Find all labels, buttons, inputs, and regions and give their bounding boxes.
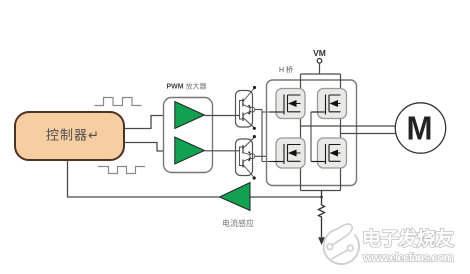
gate stub Q2 bbox=[311, 111, 326, 113]
left leg wires bbox=[300, 74, 302, 191]
amplifier box bbox=[164, 98, 213, 173]
wire feedback to controller bbox=[68, 160, 220, 197]
PWM waveform top bbox=[95, 98, 142, 106]
svg-text:H 桥: H 桥 bbox=[279, 65, 293, 74]
gate stub Q3 bbox=[262, 161, 284, 163]
VM terminal bbox=[317, 59, 322, 64]
wire bridge tap to sense resistor bbox=[321, 191, 323, 206]
driver U2 top terminal bbox=[253, 135, 256, 138]
resistor R sense bbox=[319, 205, 325, 218]
wire controller to amp2 bbox=[124, 143, 175, 152]
controller box 控制器 bbox=[15, 112, 124, 160]
amplifier A1 triangle bbox=[175, 102, 205, 129]
svg-text:控制器↵: 控制器↵ bbox=[46, 128, 100, 143]
H-bridge box bbox=[267, 80, 357, 186]
wire controller to amp1 bbox=[124, 116, 175, 129]
svg-text:VM: VM bbox=[313, 48, 326, 58]
motor M bbox=[395, 103, 445, 153]
wire amp2 to driver2 bbox=[205, 150, 240, 152]
wire VM to rail bbox=[319, 63, 321, 74]
svg-text:PWM 放大器: PWM 放大器 bbox=[167, 82, 207, 91]
VM rail bbox=[301, 73, 341, 75]
wire amp1 to driver1 bbox=[205, 115, 240, 117]
svg-text:www.elecfans.com: www.elecfans.com bbox=[362, 251, 454, 265]
bottom rail bbox=[301, 190, 341, 192]
gate bus right bbox=[310, 112, 312, 162]
MOSFET Q2 (top-right) bbox=[312, 89, 347, 119]
wire driver2 output to H-bridge edge bbox=[255, 155, 267, 157]
right leg wires bbox=[340, 74, 342, 191]
gate stub Q4 bbox=[311, 161, 326, 163]
driver U1 push-pull box bbox=[236, 89, 255, 128]
gate stub Q1 bbox=[262, 111, 284, 113]
driver U1 top terminal bbox=[253, 86, 256, 89]
watermark logo circle bbox=[324, 224, 359, 264]
wire motor line A bbox=[301, 125, 396, 127]
MOSFET Q1 (top-left) bbox=[270, 89, 305, 119]
driver U1 bottom terminal bbox=[253, 127, 256, 130]
svg-text:电子发烧友: 电子发烧友 bbox=[362, 227, 454, 250]
node sense junction bbox=[320, 196, 323, 199]
MOSFET Q3 (bottom-left) bbox=[270, 138, 305, 168]
MOSFET Q4 (bottom-right) bbox=[312, 138, 347, 168]
current sense amp triangle bbox=[220, 183, 251, 211]
wire motor line B bbox=[341, 133, 397, 135]
wire resistor to ground bbox=[321, 218, 323, 237]
svg-text:M: M bbox=[407, 110, 433, 147]
gate bus left bbox=[261, 110, 263, 162]
wire sense to amp input bbox=[250, 196, 322, 198]
wire driver1 output to gate bus bbox=[255, 109, 262, 111]
driver U2 bottom terminal bbox=[253, 176, 256, 179]
ground arrow bbox=[318, 237, 325, 245]
PWM waveform bottom bbox=[98, 167, 145, 174]
svg-text:电流感应: 电流感应 bbox=[222, 218, 254, 228]
driver U1 arrows bbox=[248, 105, 251, 109]
driver U2 arrows bbox=[248, 151, 251, 155]
driver U2 push-pull box bbox=[236, 138, 255, 178]
amplifier A2 triangle bbox=[175, 137, 205, 164]
